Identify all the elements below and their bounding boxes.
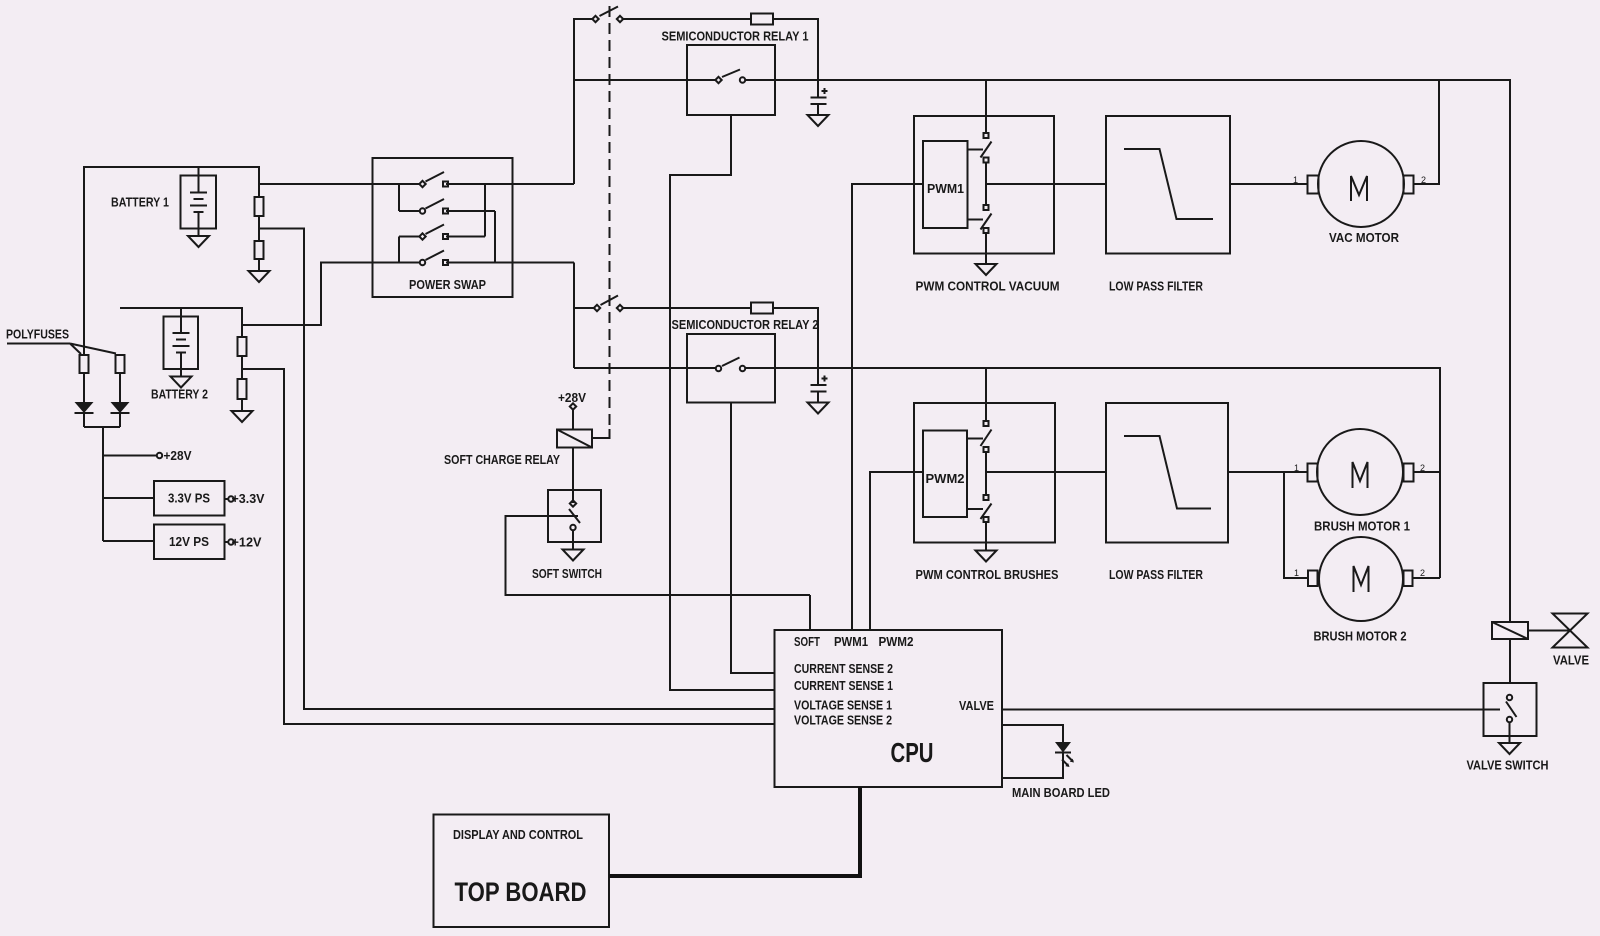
transistor Q2 (vac low side) xyxy=(968,205,992,233)
wire net B riser xyxy=(573,263,575,369)
wire net A bus xyxy=(574,80,1510,622)
switch SW4 (power swap row4) xyxy=(420,251,448,266)
svg-text:2: 2 xyxy=(1420,568,1425,578)
ground (PWM vacuum) xyxy=(976,264,997,275)
wire B2 divider stub xyxy=(241,325,243,337)
relay SOFT CHARGE RELAY coil xyxy=(444,430,592,468)
svg-text:VALVE: VALVE xyxy=(959,698,994,713)
wire net B drop into PWM2 stage xyxy=(985,368,987,421)
svg-text:PWM2: PWM2 xyxy=(926,471,965,486)
wire R4 to ground xyxy=(241,399,243,411)
wire battery B1 to power swap row1 xyxy=(259,183,420,185)
resistor R6 (brush snubber) xyxy=(751,303,773,314)
power supply 12V PS xyxy=(154,525,225,560)
switch SW3 (power swap row3) xyxy=(419,225,448,240)
wire battery B2 to power swap row4 xyxy=(120,263,420,326)
svg-text:CURRENT SENSE 1: CURRENT SENSE 1 xyxy=(794,678,893,693)
svg-text:POWER SWAP: POWER SWAP xyxy=(409,277,486,292)
svg-text:SOFT SWITCH: SOFT SWITCH xyxy=(532,566,602,581)
svg-text:BRUSH MOTOR 1: BRUSH MOTOR 1 xyxy=(1314,519,1410,534)
wire Q2 to ground xyxy=(985,233,987,264)
svg-text:LOW PASS FILTER: LOW PASS FILTER xyxy=(1109,567,1203,582)
wire net A drop into PWM1 stage xyxy=(985,80,987,133)
wire PWM1 output to LPF1 xyxy=(986,183,1106,185)
svg-text:VOLTAGE SENSE 2: VOLTAGE SENSE 2 xyxy=(794,713,892,728)
svg-text:3.3V PS: 3.3V PS xyxy=(168,491,210,506)
node +12V terminal xyxy=(225,535,262,550)
wire valve driver to valve switch xyxy=(1509,639,1511,683)
capacitor C2 xyxy=(811,376,828,403)
wire mechanical linkage (dashed) xyxy=(609,6,611,429)
ground (soft switch) xyxy=(563,550,584,561)
diode D2 xyxy=(111,402,130,413)
motor BRUSH MOTOR 1 xyxy=(1294,429,1425,534)
resistor R3 (battery2 divider top) xyxy=(238,337,247,356)
block PWM CONTROL VACUUM xyxy=(914,116,1060,294)
svg-text:SEMICONDUCTOR RELAY 2: SEMICONDUCTOR RELAY 2 xyxy=(672,317,819,332)
wire R1-R2 xyxy=(258,216,260,241)
wire R3-R4 xyxy=(241,356,243,379)
diode D1 xyxy=(75,402,94,413)
svg-text:VOLTAGE SENSE 1: VOLTAGE SENSE 1 xyxy=(794,698,892,713)
wire PWM2 output to LPF2 xyxy=(986,471,1106,473)
wire voltage sense 1 (battery1 tap to CPU) xyxy=(259,229,775,710)
wire Q4 to ground xyxy=(985,522,987,551)
valve symbol VALVE xyxy=(1553,614,1590,668)
wire power swap internal links xyxy=(399,184,495,263)
node +28V (soft charge supply) xyxy=(558,390,586,410)
svg-text:VAC MOTOR: VAC MOTOR xyxy=(1329,230,1400,245)
polyfuse F2 xyxy=(116,355,125,373)
block POWER SWAP xyxy=(373,158,513,297)
LED main board xyxy=(1055,742,1074,767)
switch SW2 (power swap row2) xyxy=(420,199,448,214)
switch SW-B (main disconnect brushes) xyxy=(594,296,623,312)
ground (C2) xyxy=(808,403,829,414)
wire SW-A to R5 xyxy=(624,18,752,20)
svg-text:SOFT CHARGE RELAY: SOFT CHARGE RELAY xyxy=(444,452,560,467)
wire Q3-Q4 junction xyxy=(985,452,987,495)
wire PWM1 gate drive from CPU xyxy=(852,184,923,630)
resistor R1 (battery1 divider top) xyxy=(255,197,264,216)
wire F2 to D2 xyxy=(119,373,121,402)
block SEMICONDUCTOR RELAY 2 xyxy=(672,317,819,403)
block LOW PASS FILTER 1 xyxy=(1106,116,1230,294)
switch SW-A (main disconnect vacuum) xyxy=(592,7,623,23)
wire to 12V PS xyxy=(103,540,154,542)
battery B1 xyxy=(111,167,216,236)
block LOW PASS FILTER 2 xyxy=(1106,403,1228,582)
motor VAC MOTOR xyxy=(1293,141,1426,245)
polyfuse F1 xyxy=(80,355,89,373)
power supply 3.3V PS xyxy=(154,481,225,516)
motor BRUSH MOTOR 2 xyxy=(1294,537,1425,644)
resistor R5 (vac snubber) xyxy=(751,14,773,25)
resistor R4 (battery2 divider bottom) xyxy=(238,379,247,399)
svg-text:CPU: CPU xyxy=(891,737,934,768)
block PWM CONTROL BRUSHES xyxy=(914,403,1059,582)
wire power swap row4 output to net B riser xyxy=(446,262,574,264)
svg-text:DISPLAY AND CONTROL: DISPLAY AND CONTROL xyxy=(453,827,583,842)
switch SOFT SWITCH xyxy=(532,490,602,581)
svg-text:BRUSH MOTOR 2: BRUSH MOTOR 2 xyxy=(1314,629,1407,644)
svg-text:PWM1: PWM1 xyxy=(834,634,868,649)
transistor Q3 (brush high side) xyxy=(967,421,992,452)
transistor Q1 (vac high side) xyxy=(968,133,992,163)
wire PWM2 gate drive from CPU xyxy=(870,472,923,630)
wire voltage sense 2 (battery2 tap to CPU) xyxy=(242,369,775,724)
ground (battery2 divider) xyxy=(232,411,253,422)
svg-text:+12V: +12V xyxy=(232,535,262,550)
wire valve driver to valve xyxy=(1528,630,1569,632)
wire LPF2 to brush motors xyxy=(1228,472,1308,578)
svg-text:MAIN BOARD LED: MAIN BOARD LED xyxy=(1012,785,1110,800)
svg-text:PWM CONTROL BRUSHES: PWM CONTROL BRUSHES xyxy=(916,567,1059,582)
resistor R2 (battery1 divider bottom) xyxy=(255,241,264,259)
switch SW1 (power swap row1) xyxy=(419,172,448,187)
wire R5 to C1 xyxy=(773,19,818,98)
wire VAC motor return xyxy=(1414,80,1440,184)
svg-text:TOP BOARD: TOP BOARD xyxy=(455,877,587,907)
wire net A riser up to main disconnect xyxy=(574,19,593,184)
svg-text:BATTERY 1: BATTERY 1 xyxy=(111,195,169,210)
wire LPF1 to VAC motor xyxy=(1230,183,1308,185)
wire power swap row1 output to net A riser xyxy=(446,183,574,185)
svg-text:BATTERY 2: BATTERY 2 xyxy=(151,387,208,402)
wire brush motor 1 return xyxy=(1414,471,1441,473)
wire to 3.3V PS xyxy=(103,497,154,499)
switch (relay1 contact) xyxy=(715,70,745,84)
wire net B bus xyxy=(574,368,1440,578)
svg-text:1: 1 xyxy=(1293,175,1298,185)
wire battery B1 loop xyxy=(84,167,259,355)
svg-text:12V PS: 12V PS xyxy=(169,534,209,549)
wire F1 to D1 xyxy=(83,373,85,402)
wire +28V to relay coil xyxy=(572,410,574,430)
wire valve switch to ground xyxy=(1509,722,1511,743)
wire D1 to bus xyxy=(83,413,85,427)
wire soft switch sense to CPU xyxy=(506,516,811,630)
wire CPU valve output xyxy=(1002,709,1500,711)
svg-text:VALVE SWITCH: VALVE SWITCH xyxy=(1467,758,1549,773)
ground (PWM brushes) xyxy=(976,551,997,562)
svg-text:SOFT: SOFT xyxy=(794,634,820,649)
svg-text:PWM CONTROL VACUUM: PWM CONTROL VACUUM xyxy=(916,279,1060,294)
wire +28V distribution bus xyxy=(84,427,120,541)
svg-text:+3.3V: +3.3V xyxy=(232,491,265,506)
node +28V terminal xyxy=(103,448,192,463)
wire soft switch to ground xyxy=(572,530,574,550)
ground (C1) xyxy=(808,115,829,126)
wire R6 to C2 xyxy=(773,308,818,385)
block CPU xyxy=(775,630,1003,787)
wire CPU to main board LED xyxy=(1002,725,1063,778)
svg-text:PWM2: PWM2 xyxy=(879,634,914,649)
block SEMICONDUCTOR RELAY 1 xyxy=(662,29,809,116)
ground (battery1 divider) xyxy=(249,271,270,282)
relay valve driver xyxy=(1492,622,1528,639)
block PWM2 xyxy=(923,431,967,518)
ground (battery B2) xyxy=(171,377,192,388)
svg-text:CURRENT SENSE 2: CURRENT SENSE 2 xyxy=(794,661,893,676)
ground (battery B1) xyxy=(188,236,209,247)
svg-text:POLYFUSES: POLYFUSES xyxy=(6,327,69,342)
svg-text:VALVE: VALVE xyxy=(1553,653,1589,668)
wire current sense 1 (relay1 to CPU) xyxy=(670,115,775,690)
block TOP BOARD xyxy=(434,815,610,928)
wire SW-B to R6 xyxy=(624,307,752,309)
wire R2 to ground xyxy=(258,259,260,271)
svg-text:+28V: +28V xyxy=(164,448,192,463)
wire relay to mechanical link xyxy=(592,429,610,438)
wire current sense 2 (relay2 to CPU) xyxy=(731,403,775,674)
node +3.3V terminal xyxy=(225,491,265,506)
switch VALVE SWITCH xyxy=(1467,683,1549,773)
svg-text:SEMICONDUCTOR RELAY 1: SEMICONDUCTOR RELAY 1 xyxy=(662,29,809,44)
svg-text:1: 1 xyxy=(1294,463,1299,473)
ground (valve switch) xyxy=(1499,743,1520,754)
transistor Q4 (brush low side) xyxy=(967,495,992,522)
wire brush motor 2 return xyxy=(1413,577,1441,579)
svg-text:LOW PASS FILTER: LOW PASS FILTER xyxy=(1109,279,1203,294)
wire Q1-Q2 junction xyxy=(985,163,987,206)
wire net B to disconnect 2 xyxy=(574,307,594,309)
svg-text:1: 1 xyxy=(1294,568,1299,578)
switch (relay2 contact) xyxy=(716,358,745,372)
wire D2 to bus xyxy=(119,413,121,427)
capacitor C1 xyxy=(811,88,828,115)
battery B2 xyxy=(151,308,208,402)
block PWM1 xyxy=(923,141,968,228)
label POLYFUSES xyxy=(6,327,116,355)
svg-text:PWM1: PWM1 xyxy=(927,181,964,196)
wire CPU to top board (ribbon) xyxy=(609,787,860,876)
wire relay to soft switch xyxy=(572,448,574,504)
